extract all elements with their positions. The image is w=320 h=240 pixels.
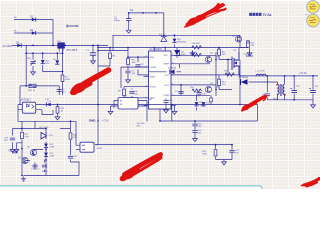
ground: [108, 109, 113, 114]
junction: [137, 56, 139, 58]
ground: [10, 147, 15, 152]
wire: [70, 121, 72, 162]
svg-text:D7 4148: D7 4148: [168, 67, 177, 69]
optocoupler U3: [18, 100, 42, 114]
annotation scribble S5 bottom-right: [302, 179, 320, 188]
svg-text:6: 6: [172, 73, 173, 75]
transistor Q3: [205, 83, 213, 93]
svg-text:EE16: EE16: [273, 98, 279, 100]
diode D9: [53, 59, 59, 64]
resistor R15: [224, 71, 234, 77]
wire: [127, 66, 129, 78]
transistor Q5: [27, 147, 37, 156]
wire: [231, 145, 233, 160]
wire: [97, 45, 99, 144]
wire: [45, 129, 47, 176]
junction: [64, 45, 66, 47]
svg-text:R6 47K: R6 47K: [193, 43, 201, 45]
wire: [227, 60, 229, 75]
junction: [266, 75, 268, 77]
zener ZD2: [41, 60, 50, 65]
wire: [17, 143, 23, 147]
wire: [180, 85, 182, 95]
zener ZD1: [172, 39, 187, 44]
wire bus B: [160, 120, 258, 122]
diode D5: [174, 48, 186, 58]
resistor R12: [190, 87, 202, 92]
svg-text:+7V 2A: +7V 2A: [299, 72, 307, 75]
capacitor C14: [196, 90, 206, 97]
junction: [142, 12, 144, 14]
svg-text:4.7K: 4.7K: [25, 136, 30, 138]
resistor R16: [202, 150, 217, 156]
svg-text:8: 8: [172, 62, 173, 64]
capacitor C12: [262, 94, 270, 96]
teal boundary line: [0, 186, 262, 189]
op IC U1 KA3842: [144, 48, 176, 109]
pin 2: [144, 57, 149, 105]
wire: [240, 82, 258, 121]
wire: [124, 96, 132, 100]
wire: [56, 53, 58, 60]
wire: [153, 48, 155, 51]
transformer T1: [273, 84, 286, 100]
junction: [227, 59, 229, 61]
svg-text:U1 KA3842: U1 KA3842: [150, 48, 163, 51]
svg-text:18V: 18V: [45, 63, 49, 65]
wire: [192, 51, 194, 56]
ground: [193, 136, 198, 141]
junction: [239, 104, 241, 106]
svg-text:7V 2A: 7V 2A: [263, 13, 273, 17]
svg-text:6: 6: [172, 83, 173, 85]
ground: [55, 115, 60, 120]
svg-text:RF1 10: RF1 10: [28, 90, 36, 92]
ground: [311, 103, 316, 108]
wire: [266, 76, 268, 100]
wire: [174, 35, 176, 47]
annotation scribble S3 mid-right: [241, 96, 265, 111]
svg-text:C20 4.7u: C20 4.7u: [31, 169, 40, 171]
junction: [45, 149, 47, 151]
svg-text:R19 0: R19 0: [42, 171, 48, 173]
junction: [174, 34, 176, 36]
ground: [172, 105, 177, 115]
ground: [31, 70, 36, 75]
svg-text:IN-: IN-: [14, 31, 17, 33]
capacitor C7: [125, 71, 136, 76]
wire: [20, 86, 26, 105]
label C23: [137, 123, 146, 128]
junction: [57, 104, 59, 106]
capacitor C24: [163, 99, 173, 108]
title 辅助电源 7V 2A: [249, 13, 272, 17]
annotation scribble S1 top: [185, 4, 226, 27]
module box U5: [114, 96, 153, 109]
capacitor C20: [31, 165, 40, 170]
wire: [179, 50, 181, 68]
wire: [284, 76, 286, 84]
wire: [163, 13, 165, 35]
svg-text:P6KE200: P6KE200: [177, 42, 187, 44]
wire: [215, 145, 217, 160]
junction: [312, 75, 314, 77]
ground: [126, 28, 131, 33]
wire: [21, 121, 23, 175]
svg-text:OUT: OUT: [165, 75, 170, 77]
wire: [249, 82, 278, 84]
wire: [121, 67, 149, 88]
junction: [62, 71, 64, 73]
diode D13: [201, 102, 210, 106]
resistor R17: [21, 132, 30, 138]
wire: [43, 53, 63, 71]
capacitor C10: [290, 86, 300, 92]
resistor R10: [247, 41, 256, 47]
svg-text:PGND: PGND: [164, 95, 171, 97]
transistor Q6: [18, 157, 28, 164]
wire: [98, 48, 128, 66]
wire: [13, 129, 47, 148]
svg-text:47K: 47K: [251, 45, 255, 47]
wire: [35, 160, 45, 173]
junction: [215, 89, 217, 91]
svg-text:VCC: VCC: [164, 55, 169, 57]
svg-text:ISNS: ISNS: [150, 76, 155, 78]
junction: [127, 56, 129, 58]
wire: [62, 45, 64, 95]
diode D12: [44, 153, 55, 158]
svg-text:GND_A: GND_A: [89, 119, 100, 123]
capacitor C18: [4, 138, 15, 143]
diode D2: [14, 29, 36, 35]
wire: [267, 99, 313, 101]
resistor R18: [69, 133, 78, 139]
connector J2: [80, 142, 103, 152]
wire: [216, 159, 233, 161]
diode D3: [3, 41, 22, 47]
wire: [18, 105, 76, 122]
resistor R8: [118, 89, 125, 95]
junction: [128, 12, 130, 14]
junction: [239, 75, 241, 77]
wire: [128, 13, 130, 28]
junction: [97, 104, 99, 106]
junction: [97, 45, 99, 47]
junction: [194, 120, 196, 122]
junction: [231, 144, 233, 146]
junction: [62, 52, 64, 54]
pin numbers: [146, 54, 174, 99]
wire: [218, 48, 220, 60]
wire: [194, 121, 196, 136]
svg-text:U3 PC817: U3 PC817: [20, 100, 31, 102]
svg-text:150K: 150K: [65, 79, 70, 81]
wire: [219, 60, 232, 90]
junction: [97, 47, 99, 49]
wire: [176, 63, 210, 65]
junction: [180, 84, 182, 86]
junction: [45, 159, 47, 161]
junction: [32, 45, 34, 47]
svg-text:RT/CT: RT/CT: [150, 87, 157, 89]
transistor Q4: [232, 36, 242, 43]
resistor R11: [218, 49, 227, 56]
svg-text:10K: 10K: [222, 84, 226, 86]
pin 6: [171, 55, 176, 105]
capacitor C16: [192, 130, 202, 135]
wire: [239, 35, 241, 47]
svg-text:2KV: 2KV: [137, 126, 142, 128]
fusible resistor RF1: [28, 84, 36, 92]
svg-text:L1 4.7uH: L1 4.7uH: [256, 71, 265, 73]
wire: [176, 60, 240, 75]
tl431 U4: [39, 127, 53, 139]
wire: [24, 129, 80, 176]
ground: [126, 100, 131, 105]
svg-text:VREF: VREF: [164, 64, 170, 66]
junction: [171, 104, 173, 106]
wire: [26, 52, 62, 54]
junction: [179, 54, 181, 56]
wire: [132, 89, 149, 98]
wire VCC top: [246, 48, 253, 56]
wire: [34, 121, 36, 128]
mosfet Q1: [232, 50, 239, 75]
junction: [21, 128, 23, 130]
svg-text:10K: 10K: [132, 62, 136, 64]
bulk capacitor C2: [87, 50, 97, 59]
diode D7: [168, 67, 177, 74]
ground: [14, 147, 19, 152]
wire: [142, 101, 147, 122]
junction: [127, 47, 129, 49]
junction: [215, 59, 217, 61]
resistor R13: [218, 79, 227, 86]
thermistor RT1: [57, 41, 78, 52]
resistor R5: [127, 58, 136, 64]
wire: [12, 44, 108, 46]
wire: [25, 45, 27, 86]
junction: [284, 75, 286, 77]
wire: [159, 109, 161, 121]
svg-text:2200p: 2200p: [114, 20, 121, 22]
svg-text:C945: C945: [215, 87, 221, 89]
svg-text:C945: C945: [215, 57, 221, 59]
wire: [129, 12, 164, 14]
junction: [25, 85, 27, 87]
junction: [45, 128, 47, 130]
wire: [52, 20, 54, 46]
ground: [21, 177, 26, 182]
wire: [128, 56, 149, 58]
resistor R9: [191, 52, 202, 57]
svg-text:100K: 100K: [202, 154, 207, 156]
inductor L1: [256, 71, 267, 76]
wire: [124, 87, 149, 89]
resistor R6: [192, 43, 202, 49]
capacitor C15: [192, 124, 202, 129]
capacitor C22: [68, 156, 78, 158]
junction: [97, 50, 99, 52]
stamp circle 2: [305, 14, 319, 27]
wire: [176, 94, 210, 96]
svg-text:2.5V: 2.5V: [49, 135, 54, 137]
junction: [25, 52, 27, 54]
svg-text:7: 7: [172, 54, 173, 56]
wire: [176, 70, 216, 96]
ground: [247, 51, 252, 56]
capacitor C17: [229, 150, 239, 155]
wire: [95, 144, 232, 146]
ground: [91, 59, 96, 64]
wire: [32, 53, 34, 69]
sheet background: [0, 0, 320, 189]
junction: [163, 34, 165, 36]
wire: [149, 71, 182, 73]
wire: [240, 75, 318, 77]
junction: [109, 47, 111, 49]
wire: [239, 75, 241, 82]
transistor Q2: [205, 53, 213, 63]
net arrow VIN: [77, 25, 79, 27]
junction: [21, 148, 23, 150]
capacitor C1: [114, 16, 132, 23]
resistor R14: [56, 105, 65, 115]
ground: [222, 160, 227, 165]
wire: [171, 105, 173, 121]
junction: [155, 12, 157, 14]
stamp circle 1: [307, 1, 320, 14]
ground: [164, 108, 169, 113]
wire: [239, 41, 248, 52]
junction: [32, 52, 34, 54]
junction: [215, 144, 217, 146]
svg-text:NTC 5D-9: NTC 5D-9: [67, 49, 78, 52]
diode D11: [44, 144, 55, 149]
junction: [42, 52, 44, 54]
wire: [127, 48, 129, 58]
junction: [218, 47, 220, 49]
svg-text:D6 SR540: D6 SR540: [238, 77, 249, 79]
junction: [293, 75, 295, 77]
wire: [34, 150, 44, 156]
capacitor C9: [175, 91, 184, 93]
junction: [56, 52, 58, 54]
diode D4: [159, 34, 167, 42]
svg-text:10K: 10K: [222, 54, 226, 56]
wire: [312, 76, 314, 103]
svg-text:5: 5: [172, 94, 173, 96]
wire: [76, 121, 80, 145]
wire: [92, 45, 94, 52]
junction: [52, 45, 54, 47]
diode D1: [14, 16, 36, 22]
resistor R4 label: [109, 53, 116, 58]
capacitor C21: [42, 165, 48, 173]
resistor R1: [61, 75, 70, 81]
wire: [111, 101, 115, 110]
wire: [138, 57, 149, 75]
wire: [14, 19, 53, 21]
wire: [98, 47, 245, 49]
resistor R20: [210, 95, 213, 104]
svg-text:OUT: OUT: [165, 85, 170, 87]
wire: [42, 110, 53, 115]
wire: [26, 86, 59, 95]
capacitor C8: [129, 91, 138, 96]
wire: [176, 52, 216, 70]
junction: [153, 47, 155, 49]
ground: [190, 51, 195, 56]
svg-text:COMP: COMP: [150, 67, 157, 69]
junction: [159, 120, 161, 122]
wire: [67, 25, 79, 28]
junction: [92, 45, 94, 47]
wire: [14, 32, 53, 34]
junction: [70, 120, 72, 122]
wire: [25, 161, 30, 165]
wire: [293, 76, 295, 100]
svg-text:AC 220V: AC 220V: [3, 45, 13, 48]
wire: [113, 35, 240, 50]
junction: [293, 99, 295, 101]
junction: [164, 47, 166, 49]
wire: [278, 96, 285, 100]
svg-text:10K: 10K: [73, 137, 77, 139]
svg-text:R9 10: R9 10: [191, 52, 197, 54]
annotation scribble S4 bottom-center: [119, 153, 162, 182]
svg-text:CON2: CON2: [96, 148, 103, 150]
wire: [196, 95, 198, 110]
annotation scribble S2 left: [69, 70, 108, 96]
wire: [218, 75, 220, 90]
capacitor C11: [309, 86, 319, 92]
wire: [164, 48, 166, 51]
capacitor C6: [135, 64, 145, 69]
junction: [21, 175, 23, 177]
svg-text:VFB: VFB: [150, 57, 155, 59]
wire bus A: [42, 104, 258, 106]
ground: [126, 78, 131, 83]
pin names: [150, 55, 170, 99]
diode D6 rectifier: [238, 77, 249, 85]
led D10: [45, 99, 51, 107]
wire: [76, 149, 80, 151]
capacitor C19: [8, 151, 18, 153]
junction: [227, 74, 229, 76]
capacitor C4: [57, 89, 67, 94]
varistor RV1: [27, 58, 36, 66]
diode D8: [194, 102, 205, 107]
svg-text:+7.2V: +7.2V: [102, 119, 109, 122]
